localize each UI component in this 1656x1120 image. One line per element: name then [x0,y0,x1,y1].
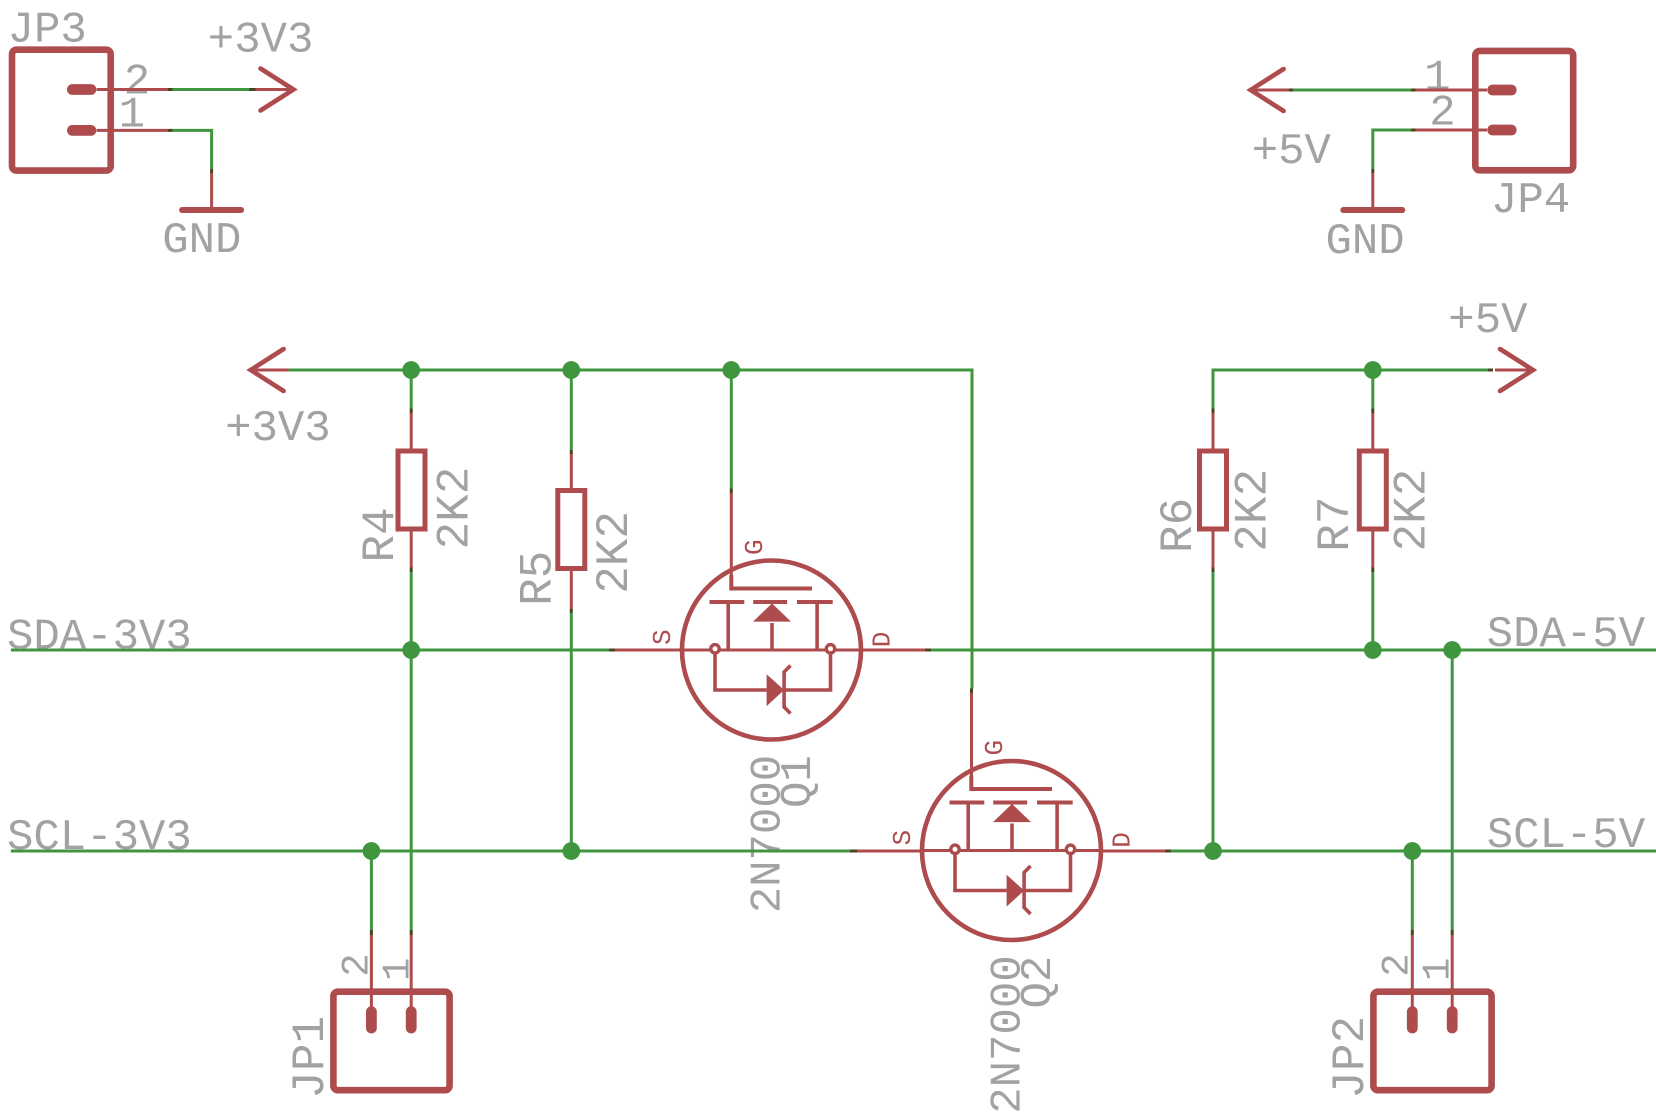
junction on +3V3 rail at R5 [562,361,580,379]
label GND (left) [162,216,241,266]
junction SCL-5V at R6 [1204,842,1222,860]
connector JP4 [1475,51,1573,170]
svg-text:G: G [980,740,1010,756]
svg-text:R7: R7 [1310,496,1362,551]
wire SCL-3V3 to JP1 pin2 [370,851,373,1011]
junction SCL-3V3 at JP1 pin2 [363,842,381,860]
pin number JP3-1 [119,91,145,141]
label JP1 [285,1016,337,1099]
connector JP3 [12,50,111,171]
label +3V3 (JP3) [208,16,314,66]
label R4 [355,507,407,562]
pin D (Q1) [868,632,898,648]
svg-text:GND: GND [162,216,241,266]
pin number JP3-2 [124,58,150,108]
pin G (Q2) [980,740,1010,756]
pin G (Q1) [740,539,770,555]
label GND (right) [1326,217,1405,267]
label +5V (JP4) [1252,127,1332,177]
supply +3V3 (JP3) [256,69,294,111]
wire +3V3 rail to R5 [570,370,573,488]
svg-text:R4: R4 [355,507,407,562]
wire JP3 pin1 to GND [97,129,212,208]
svg-text:SCL-3V3: SCL-3V3 [7,813,192,863]
svg-text:JP3: JP3 [8,6,87,56]
resistor R4 [398,451,425,529]
svg-text:S: S [648,629,678,645]
label SDA-5V [1487,610,1646,660]
name Q2 [1014,956,1064,1009]
resistor R5 [558,491,585,569]
svg-text:JP4: JP4 [1491,176,1570,226]
wire R4 to SDA-3V3 and JP1 pin1 [410,531,413,1011]
wire +3V3 to Q2 gate [970,689,973,776]
junction on +3V3 rail at R4 [402,361,420,379]
wire SCL-3V3 [11,850,857,853]
wire JP4 pin1 to +5V [1289,89,1487,92]
wire Q2 drain to SCL-5V [1101,850,1656,853]
value 2K2 (R4) [430,467,482,550]
value 2N7000 (Q1) [744,755,794,913]
label +3V3 (rail) [225,404,331,454]
wire JP4 pin2 to GND [1373,129,1487,208]
pin number JP1-2 [336,953,380,976]
svg-text:GND: GND [1326,217,1405,267]
pin S (Q1) [648,629,678,645]
label R6 [1153,498,1205,553]
resistor R6 [1200,451,1227,529]
ground GND (right) [1343,207,1402,213]
svg-text:D: D [1108,832,1138,848]
pin D (Q2) [1108,832,1138,848]
junction on +5V rail at R7 [1364,361,1382,379]
wire R5 to SCL-3V3 [570,571,573,851]
wire +5V rail to R7 [1371,370,1374,449]
svg-text:SDA-3V3: SDA-3V3 [7,613,192,663]
label R7 [1310,496,1362,551]
wire SDA-5V to JP2 pin1 [1451,650,1454,1011]
svg-text:2N7000: 2N7000 [744,755,794,913]
junction SCL-3V3 at R5 [562,842,580,860]
label +5V (rail) [1448,296,1528,346]
svg-text:1: 1 [1417,958,1461,981]
svg-text:+3V3: +3V3 [208,16,314,66]
supply +5V (rail) [1495,349,1533,391]
wire Q1 source pin [615,649,682,652]
value 2K2 (R7) [1386,469,1438,552]
wire SCL-5V to JP2 pin2 [1411,851,1414,1011]
wire Q1 drain to SDA-5V [861,649,1656,652]
svg-text:SCL-5V: SCL-5V [1487,811,1646,861]
label SCL-3V3 [7,813,192,863]
connector JP1 [333,992,449,1090]
label JP2 [1325,1016,1377,1099]
svg-text:+5V: +5V [1448,296,1528,346]
junction on +3V3 rail at Q1 gate [722,361,740,379]
svg-text:+3V3: +3V3 [225,404,331,454]
wire +5V rail [1213,369,1493,409]
wire +3V3 rail to Q1 gate [730,370,733,575]
label JP4 [1491,176,1570,226]
wire +3V3 rail [289,369,972,689]
svg-text:G: G [740,539,770,555]
pin number JP1-1 [377,958,421,981]
value 2K2 (R6) [1228,469,1280,552]
svg-text:2K2: 2K2 [589,511,641,594]
name Q1 [774,755,824,808]
junction SDA-5V at JP2 pin1 [1443,641,1461,659]
pin number JP4-2 [1429,89,1455,139]
value 2N7000 (Q2) [984,955,1034,1113]
junction SCL-5V at JP2 pin2 [1403,842,1421,860]
pin number JP2-2 [1376,953,1420,976]
svg-text:R5: R5 [513,551,565,606]
svg-text:2K2: 2K2 [1228,469,1280,552]
transistor Q2 [922,761,1101,940]
label R5 [513,551,565,606]
connector JP2 [1373,992,1491,1090]
svg-text:1: 1 [119,91,145,141]
svg-text:2: 2 [1376,953,1420,976]
svg-text:2: 2 [336,953,380,976]
svg-text:SDA-5V: SDA-5V [1487,610,1646,660]
pin number JP2-1 [1417,958,1461,981]
svg-text:S: S [888,830,918,846]
ground GND (left) [182,207,241,213]
svg-text:1: 1 [377,958,421,981]
supply +5V (JP4) [1251,69,1289,111]
svg-text:JP2: JP2 [1325,1016,1377,1099]
wire +5V rail to R6 [1212,409,1215,449]
wire R7 to SDA-5V [1371,531,1374,650]
wire SDA-3V3 [11,649,615,652]
label SDA-3V3 [7,613,192,663]
svg-text:JP1: JP1 [285,1016,337,1099]
wire JP3 pin2 to +3V3 [97,88,256,91]
supply +3V3 (rail) [251,349,289,391]
svg-text:2K2: 2K2 [1386,469,1438,552]
junction SDA-3V3 at R4 [402,641,420,659]
wire R6 to SCL-5V [1212,531,1215,851]
wire +3V3 rail to R4 [410,370,413,449]
svg-text:2K2: 2K2 [430,467,482,550]
value 2K2 (R5) [589,511,641,594]
svg-text:D: D [868,632,898,648]
resistor R7 [1359,451,1386,529]
svg-text:+5V: +5V [1252,127,1332,177]
label SCL-5V [1487,811,1646,861]
junction SDA-5V at R7 [1364,641,1382,659]
pin S (Q2) [888,830,918,846]
svg-text:2N7000: 2N7000 [984,955,1034,1113]
wire Q2 source pin [857,850,922,853]
pin number JP4-1 [1424,54,1450,104]
label JP3 [8,6,87,56]
svg-text:R6: R6 [1153,498,1205,553]
transistor Q1 [682,561,861,740]
